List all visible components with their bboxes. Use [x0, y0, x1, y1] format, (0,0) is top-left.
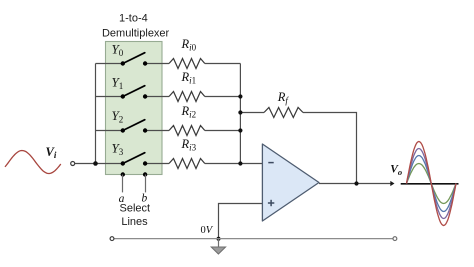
svg-text:Ri0: Ri0	[181, 37, 197, 53]
svg-text:Vo: Vo	[390, 164, 402, 177]
svg-text:Vi: Vi	[46, 145, 57, 160]
svg-text:1-to-4: 1-to-4	[119, 13, 148, 25]
svg-text:Demultiplexer: Demultiplexer	[102, 28, 170, 40]
svg-text:0V: 0V	[201, 225, 214, 236]
svg-text:b: b	[142, 193, 148, 205]
svg-text:Ri3: Ri3	[181, 137, 197, 153]
svg-text:Lines: Lines	[121, 216, 148, 228]
svg-text:Rf: Rf	[277, 90, 290, 106]
svg-text:Ri2: Ri2	[181, 104, 197, 120]
svg-text:Ri1: Ri1	[181, 70, 197, 86]
svg-text:a: a	[119, 193, 125, 205]
